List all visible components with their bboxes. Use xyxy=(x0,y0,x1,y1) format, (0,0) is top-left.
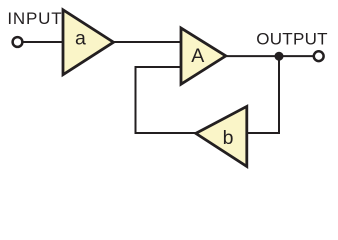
svg-text:A: A xyxy=(191,45,204,67)
svg-text:b: b xyxy=(223,127,234,149)
svg-text:OUTPUT: OUTPUT xyxy=(256,30,328,49)
svg-text:INPUT: INPUT xyxy=(7,9,62,28)
svg-text:a: a xyxy=(75,27,86,49)
